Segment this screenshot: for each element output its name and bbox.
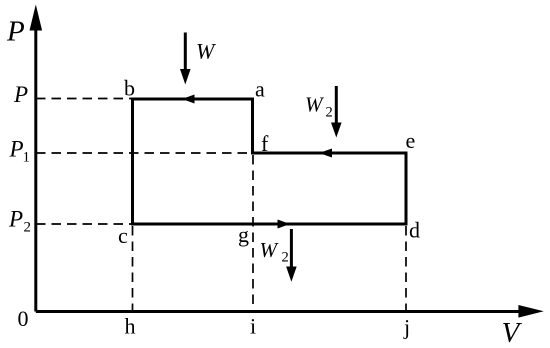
svg-text:2: 2 [326,105,333,121]
dashed guide f to i [252,155,254,311]
tick label P2 [8,207,31,236]
svg-text:2: 2 [282,250,289,266]
svg-text:i: i [250,314,256,339]
arrow W2 top right downward [331,86,342,138]
tick label P1 [9,137,31,166]
svg-text:c: c [118,223,128,248]
svg-text:2: 2 [24,220,32,236]
svg-text:g: g [238,222,249,247]
svg-text:W: W [196,39,216,64]
svg-text:b: b [124,76,135,101]
svg-text:P: P [13,82,28,107]
wire a-f vertical [251,99,254,153]
svg-text:h: h [125,314,136,339]
wire c-b vertical [131,99,134,224]
arrow W2 bottom downward [286,229,297,282]
dashed guide d to j [405,226,407,311]
x-axis (V axis) [36,305,544,318]
arrowhead on c-d pointing right [278,220,291,229]
wire e-d vertical [405,153,408,224]
arrow W downward [180,33,191,85]
wire d-c isobar P2 [133,223,407,226]
svg-text:P: P [8,207,23,232]
label W2 top right [305,93,333,121]
label W2 bottom [260,238,289,266]
svg-text:P: P [9,137,24,162]
svg-text:e: e [406,128,416,153]
dashed guide P2 to c [36,223,131,225]
arrowhead on f-e pointing left [319,149,332,158]
svg-text:W: W [305,93,325,117]
svg-text:a: a [255,77,265,102]
svg-text:0: 0 [18,306,29,331]
y-axis (P axis) [30,5,43,312]
svg-text:P: P [6,16,25,48]
svg-text:d: d [409,218,420,243]
dashed guide c to h [132,226,134,311]
dashed guide P1 to f [36,152,251,154]
wire b-a top isobar [133,98,253,101]
svg-text:f: f [261,131,269,156]
svg-text:W: W [260,238,280,262]
dashed guide P to b [36,98,132,100]
arrowhead on b-a pointing left [182,95,195,104]
wire f-e isobar P1 [253,152,407,155]
svg-text:1: 1 [23,150,31,166]
svg-text:j: j [403,315,410,340]
